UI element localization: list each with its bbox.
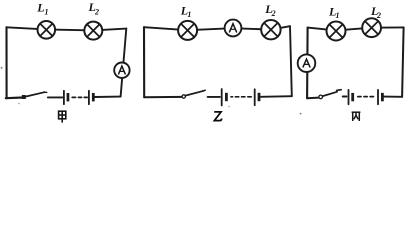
- svg-text:2: 2: [376, 11, 381, 20]
- svg-text:2: 2: [94, 7, 99, 16]
- svg-text:1: 1: [336, 11, 340, 20]
- svg-text:1: 1: [187, 10, 191, 19]
- svg-text:L: L: [36, 1, 44, 15]
- svg-text:2: 2: [271, 9, 276, 18]
- svg-text:1: 1: [45, 8, 49, 17]
